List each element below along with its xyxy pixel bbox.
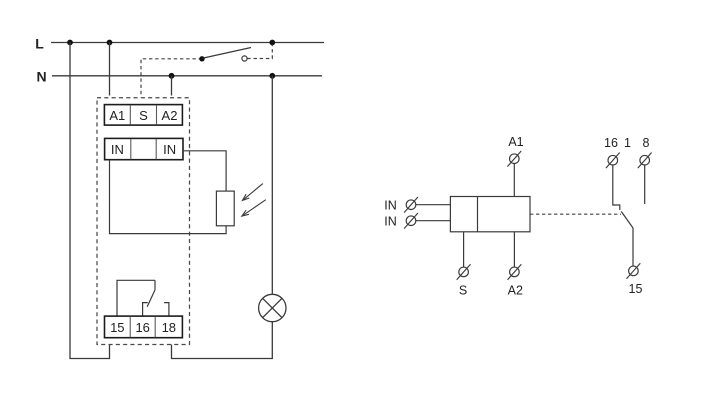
- terminal circle IN upper: [404, 197, 418, 213]
- wire A1 to box: [513, 164, 515, 197]
- svg-text:18: 18: [162, 320, 176, 335]
- wire N to lamp: [271, 76, 273, 294]
- wire S below box: [463, 232, 465, 267]
- wire L to A1: [109, 43, 111, 96]
- wire IN left to LDR bottom: [110, 160, 227, 234]
- svg-text:15: 15: [110, 320, 124, 335]
- svg-text:16: 16: [604, 136, 618, 150]
- terminal circle 18: [638, 153, 652, 169]
- terminal block A1 S A2: [104, 105, 182, 126]
- wire L line: [51, 42, 324, 44]
- relay contact K1 blade right: [621, 212, 633, 229]
- wire IN right to LDR top: [183, 151, 226, 191]
- wire 16 with seat: [613, 165, 620, 210]
- terminal block 15 16 18: [105, 316, 183, 338]
- wire blade to 15: [632, 228, 634, 266]
- light arrow 1: [243, 184, 263, 201]
- switch S1 fixed contact: [242, 56, 247, 61]
- terminal circle A1: [507, 151, 521, 167]
- svg-text:IN: IN: [163, 142, 176, 157]
- terminal block IN IN: [105, 138, 183, 159]
- svg-text:IN: IN: [111, 142, 124, 157]
- terminal circle A2: [508, 264, 522, 280]
- terminal circle 16: [606, 153, 620, 169]
- svg-text:15: 15: [629, 282, 643, 296]
- switch S1 dashed wire to L: [247, 45, 272, 59]
- wire N line: [52, 75, 322, 77]
- svg-text:A2: A2: [162, 108, 178, 123]
- photoresistor R1 body: [216, 191, 234, 226]
- svg-text:IN: IN: [384, 214, 397, 228]
- svg-text:A2: A2: [508, 283, 523, 297]
- svg-text:IN: IN: [384, 198, 397, 212]
- svg-text:N: N: [36, 69, 46, 85]
- relay contact K1 seat 18: [164, 303, 169, 317]
- svg-text:16: 16: [135, 320, 149, 335]
- wire N to A2: [171, 76, 173, 96]
- wire IN upper to box: [416, 204, 451, 206]
- svg-text:L: L: [35, 36, 44, 52]
- dashed actuator link: [530, 213, 621, 215]
- device box U1: [450, 197, 530, 232]
- relay contact K1 seat 16: [143, 303, 148, 317]
- switch S1 dashed wire to S terminal: [141, 59, 202, 96]
- svg-text:S: S: [139, 108, 148, 123]
- terminal circle S: [457, 264, 471, 280]
- junction dot N2: [269, 73, 275, 79]
- switch S1 blade: [204, 48, 252, 59]
- terminal circle 15: [627, 263, 641, 279]
- wire A2 below box: [513, 232, 515, 267]
- svg-text:1: 1: [624, 136, 631, 150]
- junction dot N1: [169, 73, 175, 79]
- lamp E1: [259, 294, 286, 321]
- switch S1 pivot dot: [199, 56, 204, 61]
- device dashed enclosure: [97, 98, 190, 345]
- terminal circle IN lower: [404, 213, 418, 229]
- svg-text:A1: A1: [508, 135, 523, 149]
- wire 18: [644, 165, 646, 204]
- wire L down left side: [70, 43, 110, 359]
- svg-text:8: 8: [643, 136, 650, 150]
- svg-text:S: S: [459, 283, 467, 297]
- junction dot L1: [67, 40, 73, 46]
- junction dot L3: [269, 40, 275, 46]
- junction dot L2: [107, 40, 113, 46]
- relay contact K1 blade drop: [154, 280, 156, 290]
- device box U1 divider: [477, 197, 479, 232]
- light arrow 2: [242, 200, 266, 216]
- svg-text:A1: A1: [109, 108, 125, 123]
- relay contact K1 common 15: [117, 280, 155, 316]
- wire 18 to lamp: [172, 322, 273, 359]
- relay contact K1 blade: [147, 290, 155, 307]
- wire IN lower to box: [416, 220, 451, 222]
